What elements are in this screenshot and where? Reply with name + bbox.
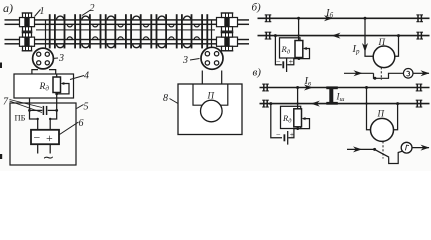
crossing blob v relay [365, 102, 367, 104]
wire step to battery left [30, 110, 38, 129]
svg-text:2: 2 [90, 3, 95, 14]
node v rail1 resistor branch [296, 86, 299, 89]
wheel 3 right (sprocket with holes) [201, 47, 223, 69]
node capacitor wire left [28, 109, 31, 112]
arrow left on rail2 b [332, 33, 341, 39]
label Iv with arrow [304, 76, 314, 90]
svg-text:ПБ: ПБ [15, 113, 26, 123]
wire resistor bottom b [298, 58, 300, 59]
signal line b with arrow [344, 70, 374, 76]
bolt 1 top-left chain anchor [20, 13, 35, 31]
relay P circle v [371, 118, 394, 141]
svg-text:−: − [34, 131, 41, 145]
shunt bar Ish [326, 86, 338, 104]
node b rail2 left branch [274, 34, 277, 37]
dashed link v [382, 141, 384, 158]
signal out arrow b [413, 70, 430, 76]
wire Rd to capacitor left [29, 98, 31, 110]
node b rail1 relay branch [364, 17, 367, 20]
rail 1 of v) [260, 87, 430, 89]
svg-text:6: 6 [79, 118, 84, 129]
wire relay left lead v [367, 88, 372, 130]
bolt bottom-left chain anchor [20, 33, 35, 51]
wire battery plus to resistor v [288, 129, 297, 138]
wire battery plus to resistor b [287, 59, 299, 65]
svg-text:−: − [276, 57, 281, 66]
relay P circle [201, 100, 223, 122]
box Rd b [280, 38, 301, 58]
battery 6 box [31, 130, 59, 145]
wire relay right lead v [393, 104, 398, 130]
box P (8) [178, 84, 242, 135]
wiper loop b [299, 47, 310, 59]
label Ip with arrow [352, 43, 369, 56]
insulated joint b top-right [416, 15, 423, 22]
node b rail2 relay branch [397, 34, 400, 37]
insulated joint b top-left [265, 15, 272, 22]
node contact pivot v [373, 148, 376, 151]
wheel 3 left (sprocket with holes) [33, 48, 54, 69]
svg-text:4: 4 [84, 71, 89, 82]
insulated joint v bottom-right [416, 100, 423, 107]
wire chain to left wheel [45, 20, 47, 49]
svg-text:а): а) [3, 1, 13, 15]
wire relay left lead b [365, 18, 374, 56]
lamp k circle v [401, 142, 412, 153]
wire v rail2 to battery [271, 104, 282, 138]
inner bracket of P box [193, 84, 228, 105]
wire contact to lamp v [389, 151, 403, 163]
callout 8 [163, 93, 178, 104]
rail 1 of b) [258, 17, 430, 19]
svg-text:Rд: Rд [39, 82, 50, 93]
svg-text:∼: ∼ [43, 151, 55, 166]
wire battery leg left [37, 144, 39, 153]
resistor v [294, 109, 302, 127]
wire resistor top stub [56, 74, 58, 77]
callout 7 [3, 97, 42, 113]
svg-text:П: П [207, 91, 215, 101]
arrow left on rail2 v [311, 101, 320, 107]
bolt bottom-right chain anchor [217, 33, 238, 51]
rail 2 of b) [258, 35, 430, 37]
relay P circle b [373, 46, 395, 68]
right wheel pedestal [202, 71, 221, 85]
svg-text:П: П [378, 37, 386, 47]
svg-text:3: 3 [58, 53, 64, 64]
wire rail1 to resistor v [297, 88, 299, 110]
wire step to battery right [50, 110, 57, 129]
box Rd v [281, 106, 301, 128]
resistor Rd left [53, 77, 61, 93]
node contact b [373, 77, 376, 80]
callout 1 [35, 6, 45, 17]
crossing blob b [297, 34, 299, 36]
wire chain pins/slat bars [49, 14, 208, 48]
svg-text:+: + [46, 131, 53, 145]
node resistor bottom junction [55, 93, 58, 96]
node battery top right [49, 118, 51, 120]
svg-text:8: 8 [163, 93, 168, 104]
lamp z circle b [403, 69, 413, 79]
svg-text:3: 3 [182, 55, 188, 66]
callout 4 [70, 71, 89, 82]
chain link bands (rails of chain) [5, 19, 250, 44]
rail 2 of v) [260, 103, 430, 105]
wire Rd to capacitor right [56, 94, 58, 111]
wiper loop of Rd left [57, 82, 69, 94]
battery v [276, 130, 295, 144]
node battery top left [37, 118, 39, 120]
node b rail1 resistor branch [297, 17, 300, 20]
contact blade v (open) [375, 149, 389, 157]
dashed link b [380, 67, 382, 80]
node v rail2 left branch [269, 102, 272, 105]
svg-text:5: 5 [84, 102, 89, 113]
crossing blob v [296, 102, 298, 104]
wire chain inner side bar [36, 29, 215, 30]
svg-text:П: П [377, 109, 385, 119]
insulated joint v bottom-left [262, 100, 269, 107]
callout 5 [77, 102, 89, 113]
wire resistor bottom v [297, 127, 299, 129]
callout 3 left wheel [52, 53, 64, 64]
contact bridge b (closed) [374, 73, 404, 78]
scan mark left edge 2 [0, 154, 2, 159]
capacitor C (7) [30, 106, 57, 115]
insulated joint b bottom-right [416, 32, 423, 39]
wire chain to right wheel [211, 20, 213, 48]
node v rail2 relay branch [396, 102, 399, 105]
label Ib with arrow [324, 8, 334, 21]
battery b [276, 57, 294, 72]
left wheel pedestal [32, 70, 56, 74]
svg-text:в): в) [253, 67, 262, 79]
box sensor Rd [14, 74, 74, 98]
box PB enclosure [10, 103, 76, 165]
svg-text:−: − [276, 130, 281, 139]
signal line v with arrow [347, 146, 375, 152]
wiper loop v [298, 117, 310, 129]
wire relay right lead b [394, 36, 398, 57]
wire rail1 to resistor b [298, 18, 300, 41]
callout 3 right wheel [182, 55, 200, 66]
node v resistor bottom [296, 127, 299, 130]
bolt top-right chain anchor [217, 13, 238, 31]
node b resistor bottom [298, 57, 301, 60]
wire battery leg right [49, 144, 51, 153]
scan mark left edge [0, 63, 2, 69]
callout 2 [82, 3, 95, 16]
svg-text:1: 1 [40, 6, 45, 17]
wire b rail2 to battery [275, 36, 281, 65]
node capacitor wire right [55, 109, 58, 112]
callout 6 [60, 118, 84, 135]
node v rail1 relay branch [365, 86, 368, 89]
svg-text:б): б) [252, 2, 262, 14]
resistor b [295, 41, 303, 58]
chain roller arcs [56, 16, 199, 48]
insulated joint b bottom-left [265, 32, 272, 39]
insulated joint v top-left [262, 84, 269, 91]
insulated joint v top-right [416, 84, 423, 91]
signal out arrow v [412, 145, 430, 151]
